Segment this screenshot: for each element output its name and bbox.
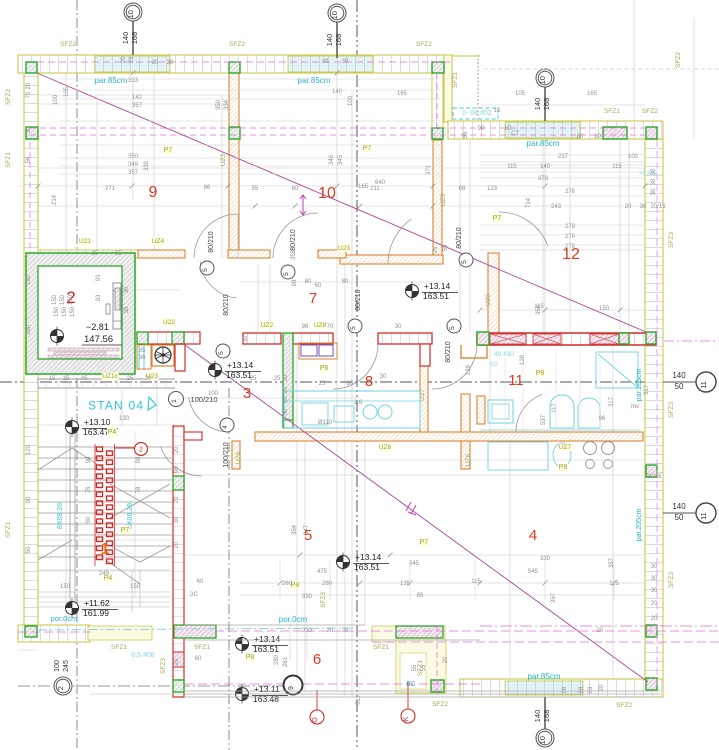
svg-text:160: 160: [26, 324, 32, 335]
svg-text:117: 117: [552, 403, 558, 413]
exterior wall bottom-left: [18, 625, 90, 642]
svg-text:SFZ1: SFZ1: [604, 108, 620, 115]
svg-text:20: 20: [174, 446, 180, 453]
svg-text:140: 140: [325, 34, 334, 47]
svg-text:−2.81: −2.81: [86, 322, 109, 332]
elevator cab rail: [115, 288, 120, 310]
svg-text:55: 55: [443, 244, 449, 251]
stair side rails: [69, 432, 71, 612]
svg-text:P8: P8: [246, 654, 255, 661]
magenta dashed line y128: [30, 127, 650, 129]
cyan dashed rect notch: [453, 108, 498, 119]
label P8 b: [558, 463, 568, 471]
svg-text:4: 4: [222, 425, 229, 429]
svg-text:38: 38: [124, 306, 130, 313]
svg-text:358: 358: [291, 249, 297, 260]
svg-text:357: 357: [551, 592, 557, 603]
exterior wall top cyan section 2: [288, 56, 373, 72]
grid bubble 11 right-mid: [696, 372, 716, 392]
svg-text:10: 10: [330, 11, 339, 19]
door arc room11: [516, 394, 542, 432]
circle door 4 entry2: [220, 418, 234, 432]
svg-text:30: 30: [174, 516, 180, 523]
label UZ8: [314, 322, 327, 330]
svg-text:80/210: 80/210: [223, 294, 230, 316]
circle door 5 hall-lobby: [216, 344, 230, 358]
svg-text:347: 347: [304, 524, 310, 535]
level marker stairs top: [66, 421, 79, 434]
svg-text:SFZ2: SFZ2: [675, 52, 682, 68]
svg-text:10: 10: [126, 10, 135, 18]
svg-text:60: 60: [315, 283, 322, 289]
svg-text:SFZ2: SFZ2: [5, 89, 12, 105]
svg-text:+13.14: +13.14: [355, 552, 382, 562]
svg-text:150: 150: [54, 306, 60, 317]
svg-text:+13.14: +13.14: [227, 360, 254, 370]
green strip wall rooms 3|7: [283, 333, 293, 426]
svg-text:349: 349: [128, 162, 139, 168]
svg-text:350: 350: [216, 99, 222, 110]
svg-text:5: 5: [218, 351, 225, 355]
label P7 e: [120, 526, 130, 534]
svg-text:2: 2: [139, 447, 143, 454]
svg-text:80: 80: [342, 279, 349, 285]
svg-text:168: 168: [542, 710, 551, 723]
svg-text:P4: P4: [108, 429, 117, 436]
svg-text:SFZ2: SFZ2: [229, 41, 245, 48]
svg-text:U27: U27: [419, 389, 426, 401]
circle door 5 room9a: [200, 261, 214, 275]
svg-text:SFZ2: SFZ2: [432, 701, 448, 708]
svg-text:55: 55: [412, 664, 418, 671]
diagonal 2 arrow: [406, 502, 416, 515]
extra dimension rows room12: [480, 154, 645, 156]
orange wall UZ4 segment3: [228, 250, 270, 258]
svg-text:140: 140: [533, 710, 542, 723]
magenta dashed vertical right wall: [656, 140, 658, 690]
svg-text:SFZ2: SFZ2: [616, 702, 632, 709]
svg-text:80/210: 80/210: [290, 229, 297, 251]
svg-text:K: K: [403, 716, 410, 721]
svg-text:93: 93: [96, 274, 102, 281]
svg-text:85: 85: [417, 593, 424, 599]
grid bubble 9 bottom: [284, 676, 303, 695]
svg-text:5: 5: [461, 260, 468, 264]
elevator shaft inner: [38, 266, 122, 359]
section line vertical B: [356, 0, 358, 750]
svg-text:100/210: 100/210: [223, 442, 230, 467]
svg-text:por.0cm: por.0cm: [279, 615, 308, 624]
green block in wall Z y680: [173, 680, 184, 692]
purple window squares room3: [301, 345, 317, 356]
svg-text:75: 75: [86, 486, 92, 493]
bath niche orange: [461, 345, 487, 358]
svg-text:3: 3: [243, 385, 251, 402]
svg-text:30: 30: [651, 178, 657, 185]
svg-text:211: 211: [370, 186, 380, 192]
label UZ6 a: [379, 444, 392, 452]
orange wall U26 kitchen vertical: [461, 394, 470, 432]
dimension tick marks: [36, 71, 648, 586]
svg-text:150: 150: [62, 306, 68, 317]
tracing diagonal 1: [37, 73, 646, 332]
svg-text:123: 123: [487, 186, 498, 192]
svg-text:par.85cm: par.85cm: [527, 139, 560, 148]
svg-text:20/16: 20/16: [646, 474, 662, 480]
orange wall rooms 10|12: [433, 140, 442, 264]
svg-text:537: 537: [541, 414, 547, 425]
extra dimension cols room5: [279, 560, 281, 600]
column x229 y127: [229, 127, 240, 139]
red vertical wall Z x173: [173, 426, 184, 697]
svg-text:168: 168: [334, 34, 343, 47]
svg-text:98: 98: [136, 456, 142, 463]
svg-text:SFZ2: SFZ2: [416, 41, 432, 48]
svg-text:P8: P8: [559, 464, 568, 471]
orange long wall UZ6: [255, 432, 643, 441]
svg-text:70: 70: [327, 324, 334, 330]
column right y625: [646, 625, 657, 637]
label U23 b: [146, 373, 159, 381]
svg-text:25: 25: [250, 376, 257, 382]
svg-text:SFZ1: SFZ1: [452, 72, 459, 88]
svg-text:25: 25: [274, 376, 281, 382]
circle door 1 entry: [169, 392, 184, 407]
svg-text:214: 214: [52, 194, 58, 205]
svg-text:UZ3: UZ3: [440, 193, 447, 206]
svg-text:147.56: 147.56: [84, 334, 113, 345]
magenta dashed vertical left wall: [29, 142, 31, 330]
svg-text:100: 100: [208, 391, 219, 397]
svg-text:55: 55: [252, 186, 259, 192]
svg-text:SFZ3: SFZ3: [668, 402, 675, 418]
svg-text:SFZ1: SFZ1: [194, 644, 210, 651]
svg-text:142: 142: [132, 95, 143, 101]
svg-text:25: 25: [433, 246, 439, 253]
grid bubble 11 right-low: [696, 503, 716, 523]
svg-text:C7: C7: [511, 131, 519, 137]
svg-text:150: 150: [52, 294, 58, 305]
svg-text:7: 7: [309, 290, 317, 307]
column right corner bottom: [646, 678, 657, 690]
svg-text:mv: mv: [631, 404, 639, 410]
label P7 c: [492, 214, 502, 222]
svg-text:30: 30: [283, 408, 289, 415]
exterior wall right: [645, 139, 663, 697]
stair red dashed strips: [97, 447, 103, 452]
svg-text:378: 378: [538, 176, 549, 182]
magenta dash-dot corridor2: [18, 631, 90, 633]
niche cyan bits: [138, 346, 140, 370]
svg-text:140: 140: [672, 371, 686, 380]
bath shower: [596, 352, 638, 388]
svg-text:U22: U22: [163, 319, 175, 326]
label UZ2: [261, 322, 274, 330]
kitchen counter room 8: [284, 391, 420, 428]
svg-text:SFZ2: SFZ2: [642, 108, 658, 115]
svg-text:par.85cm: par.85cm: [298, 76, 331, 85]
fan rotor: [155, 347, 171, 363]
svg-text:por.0cm: por.0cm: [51, 614, 78, 623]
wall x433 upper band: [432, 73, 443, 128]
svg-text:357: 357: [128, 170, 139, 176]
red wall segment B y332: [293, 333, 333, 344]
svg-text:20: 20: [174, 496, 180, 503]
svg-text:358: 358: [536, 304, 542, 315]
svg-text:P7: P7: [363, 145, 372, 152]
svg-text:+13.14: +13.14: [424, 281, 451, 291]
svg-text:30: 30: [124, 286, 130, 293]
magenta dashed line y136: [30, 134, 650, 136]
svg-text:15: 15: [115, 251, 122, 257]
svg-text:350: 350: [128, 154, 139, 160]
svg-text:30: 30: [243, 335, 249, 342]
magenta dash-dot right bottom y626: [480, 625, 719, 627]
svg-text:98: 98: [588, 686, 594, 693]
svg-text:30: 30: [651, 588, 658, 594]
orange wall U27 vertical: [420, 366, 428, 432]
elevator level marker: [51, 330, 64, 343]
red wall right hatch cells: [490, 334, 526, 344]
svg-text:80/210: 80/210: [355, 289, 362, 311]
svg-text:6: 6: [313, 651, 321, 668]
svg-text:UZ2: UZ2: [261, 322, 274, 329]
svg-text:SFZ1: SFZ1: [373, 644, 389, 651]
svg-text:5: 5: [283, 272, 290, 276]
svg-text:20: 20: [625, 204, 632, 210]
circle door 5 room9b: [281, 265, 295, 279]
svg-text:330: 330: [540, 556, 551, 562]
svg-text:30: 30: [651, 188, 657, 195]
orange wall UZ1 under room9 segment1: [38, 250, 138, 258]
svg-text:60: 60: [195, 656, 202, 662]
label P6 a: [319, 364, 329, 372]
svg-text:261: 261: [283, 656, 289, 667]
magenta dash-dot corridor top: [38, 628, 360, 630]
column top-right corner: [646, 127, 657, 139]
svg-text:90: 90: [26, 496, 32, 503]
svg-text:88: 88: [459, 186, 466, 192]
label P4 b: [107, 428, 117, 436]
svg-text:140: 140: [533, 98, 542, 111]
svg-text:93: 93: [96, 294, 102, 301]
exterior wall top cyan section 1: [95, 56, 170, 72]
svg-text:U23: U23: [338, 245, 350, 252]
svg-text:U21: U21: [79, 238, 91, 245]
green column in red wall x477: [477, 332, 489, 345]
column top x229: [229, 62, 240, 73]
svg-text:100: 100: [54, 660, 61, 672]
elevator shaft outer wall: [26, 253, 135, 374]
exterior wall bottom-right cyan section: [505, 681, 583, 695]
section line vertical C x229: [228, 388, 230, 750]
svg-text:90: 90: [86, 516, 92, 523]
svg-text:30: 30: [283, 396, 289, 403]
green column in red wall x646: [646, 332, 656, 344]
svg-text:714: 714: [526, 197, 532, 208]
svg-text:150: 150: [60, 584, 71, 590]
svg-text:15: 15: [92, 251, 99, 257]
stair flight arrows: [38, 448, 140, 584]
svg-text:245: 245: [63, 660, 70, 672]
svg-text:105: 105: [64, 86, 70, 97]
hall wall ticks: [45, 379, 47, 388]
svg-text:+11.62: +11.62: [84, 598, 110, 608]
niche red band: [137, 332, 200, 344]
svg-text:334: 334: [224, 99, 230, 110]
orange wall UZ4 segment4: [318, 250, 346, 258]
elevator counterweight symbol: [113, 283, 121, 329]
svg-text:80/210: 80/210: [456, 227, 463, 249]
svg-text:56: 56: [26, 156, 32, 163]
grid bubble 10 top-left: [124, 3, 142, 21]
svg-text:168: 168: [542, 98, 551, 111]
svg-text:115: 115: [612, 164, 622, 170]
svg-text:98: 98: [174, 466, 180, 473]
svg-text:UZ3: UZ3: [220, 153, 227, 166]
svg-text:par.205cm: par.205cm: [636, 508, 643, 541]
red wall cell X marks: [490, 334, 619, 344]
door arc room9 left: [194, 214, 238, 258]
room6 kitchen lower fixtures: [488, 442, 548, 470]
svg-text:20: 20: [121, 56, 127, 63]
svg-text:20: 20: [174, 658, 180, 665]
label P7 b: [362, 144, 372, 152]
level marker hall: [209, 364, 222, 377]
column bottom-left: [25, 626, 37, 637]
svg-text:30: 30: [26, 126, 32, 133]
niche green cell2: [137, 332, 148, 344]
svg-text:130: 130: [119, 416, 130, 422]
svg-text:Ø110: Ø110: [318, 420, 333, 426]
svg-text:11: 11: [508, 372, 524, 389]
svg-text:10: 10: [538, 76, 547, 84]
section line horizontal mid: [0, 381, 719, 383]
niche green cell: [172, 332, 184, 344]
grid bubble 10 bottom: [536, 729, 554, 747]
label P8 a: [535, 369, 545, 377]
svg-text:UZ8: UZ8: [314, 322, 327, 329]
svg-text:128: 128: [466, 364, 472, 375]
svg-text:UZ6: UZ6: [465, 453, 472, 466]
svg-text:115: 115: [471, 579, 481, 585]
circle door 5 room7b: [447, 319, 461, 333]
svg-text:9: 9: [149, 184, 158, 201]
svg-text:8X08.28: 8X08.28: [57, 503, 64, 529]
svg-text:SFZ3: SFZ3: [320, 592, 327, 608]
svg-text:150: 150: [130, 584, 141, 590]
svg-text:100: 100: [348, 95, 354, 106]
svg-text:260: 260: [282, 581, 293, 587]
stair landing lines: [38, 569, 170, 571]
circle door 5 room7a: [348, 319, 362, 333]
green column in red wall x619: [619, 333, 629, 344]
svg-text:20: 20: [283, 386, 289, 393]
stair strip borders: [94, 444, 96, 566]
svg-text:100: 100: [53, 94, 59, 105]
svg-text:80/210: 80/210: [208, 231, 215, 253]
svg-text:105: 105: [515, 91, 526, 97]
orange wall U23 horizontal: [340, 255, 443, 264]
red wall right y332: [477, 333, 656, 345]
door arc room12: [499, 212, 548, 246]
red wall stub down x420: [420, 344, 430, 366]
svg-text:20/16: 20/16: [650, 204, 666, 210]
orange wall UZ4 segment2: [138, 250, 185, 258]
bottom-left light band: [88, 626, 152, 640]
svg-text:40 #30: 40 #30: [494, 351, 514, 358]
svg-text:115: 115: [609, 581, 619, 587]
svg-text:+13.14: +13.14: [254, 634, 281, 644]
bath bidet: [578, 398, 600, 428]
svg-text:30: 30: [651, 564, 658, 570]
label U22: [163, 319, 176, 327]
svg-text:96: 96: [562, 686, 568, 693]
svg-text:98: 98: [579, 686, 585, 693]
svg-text:80: 80: [595, 134, 602, 140]
svg-text:11: 11: [701, 512, 708, 519]
svg-text:U26: U26: [235, 452, 242, 464]
svg-text:475: 475: [317, 569, 328, 575]
label P4 a: [103, 574, 113, 582]
section arrow room10: [300, 195, 306, 215]
svg-text:5: 5: [350, 326, 357, 330]
svg-text:640: 640: [375, 180, 386, 186]
svg-text:357: 357: [132, 103, 143, 109]
svg-text:98: 98: [86, 456, 92, 463]
svg-text:60: 60: [197, 579, 204, 585]
exterior wall connector top-right: [444, 55, 452, 122]
level marker corridor2: [236, 688, 249, 701]
svg-text:180: 180: [26, 274, 32, 285]
svg-text:115: 115: [507, 164, 517, 170]
svg-text:SFZ2: SFZ2: [60, 41, 76, 48]
svg-text:150: 150: [599, 306, 610, 312]
elevator hatch strips bottom: [48, 348, 119, 351]
level marker stairs bottom: [66, 602, 79, 615]
svg-text:SFZ1: SFZ1: [5, 522, 12, 538]
svg-text:330: 330: [302, 628, 313, 634]
faint dashed top-right: [484, 68, 719, 70]
svg-text:9: 9: [288, 686, 295, 690]
bath cyan counter: [480, 429, 640, 431]
corridor edge lines: [184, 624, 365, 626]
svg-text:80: 80: [347, 381, 354, 387]
svg-text:2: 2: [56, 686, 65, 690]
svg-text:25: 25: [127, 376, 134, 382]
svg-text:165: 165: [587, 91, 598, 97]
svg-text:80/210: 80/210: [445, 341, 452, 363]
svg-text:20: 20: [26, 82, 32, 89]
svg-text:354: 354: [292, 524, 298, 535]
svg-text:0,5 #08: 0,5 #08: [131, 652, 154, 659]
svg-text:80: 80: [292, 186, 299, 192]
svg-text:36: 36: [139, 355, 146, 361]
svg-text:98: 98: [302, 324, 309, 330]
circle door 5 U23: [459, 253, 473, 267]
svg-text:20: 20: [651, 601, 658, 607]
svg-text:+13.10: +13.10: [84, 417, 111, 427]
svg-text:511: 511: [356, 695, 362, 705]
level marker room7: [406, 285, 419, 298]
small dimension texts: [26, 56, 666, 705]
svg-text:20: 20: [599, 684, 605, 691]
svg-text:345: 345: [338, 154, 344, 165]
svg-text:317: 317: [609, 396, 615, 407]
svg-text:30: 30: [651, 168, 657, 175]
svg-text:SFZ3: SFZ3: [668, 232, 675, 248]
svg-text:15: 15: [49, 376, 56, 382]
